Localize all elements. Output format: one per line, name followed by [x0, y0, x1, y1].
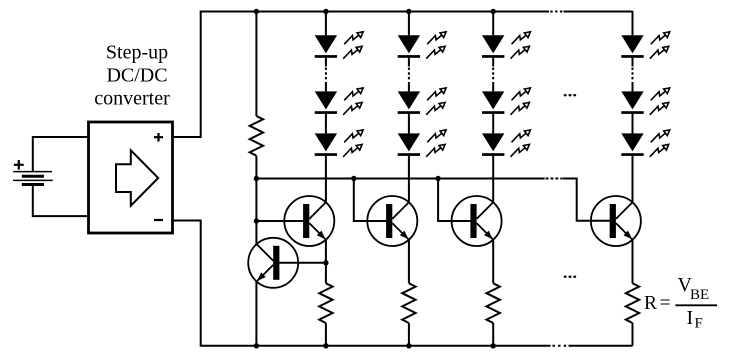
svg-text:Step-up: Step-up [106, 42, 168, 64]
svg-text:converter: converter [94, 88, 170, 110]
svg-text:BE: BE [690, 287, 709, 303]
svg-text:R=: R= [644, 293, 673, 314]
svg-text:I: I [687, 307, 694, 329]
svg-text:F: F [695, 316, 703, 332]
svg-text:DC/DC: DC/DC [106, 65, 167, 87]
